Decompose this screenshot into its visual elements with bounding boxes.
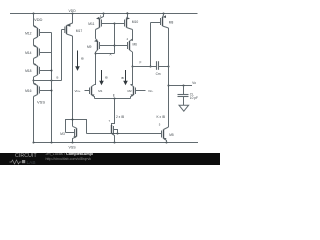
wire M10 drain to M6 source bbox=[132, 30, 134, 40]
svg-text:M10: M10 bbox=[132, 20, 139, 24]
svg-text:M17: M17 bbox=[76, 29, 83, 33]
wire bias gate rail x=51.5 bbox=[51, 33, 53, 143]
svg-text:F: F bbox=[140, 61, 142, 65]
svg-text:M18: M18 bbox=[25, 69, 32, 73]
transistor M3 NMOS mirror diode (gate left) bbox=[66, 126, 77, 142]
ground symbol below CL bbox=[179, 105, 189, 111]
wire M17 drain long vertical to M3 bbox=[72, 36, 74, 126]
transistor M9 PMOS cascode (gate right) bbox=[94, 39, 115, 53]
svg-text:K x IB: K x IB bbox=[157, 115, 166, 119]
annotation current arrow IB left branch bbox=[99, 70, 104, 85]
svg-text:VSS: VSS bbox=[37, 100, 45, 105]
svg-text:10 pF: 10 pF bbox=[190, 96, 198, 100]
wire M18 drain to node B bbox=[33, 77, 35, 81]
node VDD junction dot M11 source bbox=[103, 13, 105, 15]
node VDD junction dot M12 source bbox=[33, 13, 35, 15]
node dot CL tap bbox=[183, 85, 185, 87]
transistor M11 PMOS (gate right) bbox=[96, 14, 115, 30]
svg-text:E: E bbox=[113, 94, 115, 98]
svg-text:M16: M16 bbox=[25, 89, 32, 93]
node dot upper gate line bbox=[114, 23, 116, 25]
svg-text:M14: M14 bbox=[25, 51, 32, 55]
wire Vo output line bbox=[169, 85, 193, 87]
wire M8 drain vertical through Cm node to Vo and M5 drain bbox=[168, 28, 170, 127]
wire M16 drain down to VSS rail bbox=[33, 97, 35, 143]
node F junction dot bbox=[132, 66, 134, 68]
node E junction dot bbox=[114, 98, 116, 100]
transistor M14 PMOS diode (gate right) bbox=[34, 45, 52, 59]
svg-text:2 x IB: 2 x IB bbox=[116, 115, 124, 119]
wire cascode gate riser x=114.5 bbox=[114, 24, 116, 54]
wire M14 drain to M18 source bbox=[33, 59, 35, 64]
node dot lower gate line bbox=[114, 45, 116, 47]
svg-text:5: 5 bbox=[159, 123, 161, 127]
svg-text:Cm: Cm bbox=[156, 72, 161, 76]
node A junction dot bbox=[95, 53, 97, 55]
transistor M1 NMOS diff pair (gate left) bbox=[85, 85, 95, 99]
wire M17 gate riser down to node B bbox=[61, 30, 63, 81]
capacitor CL bbox=[178, 86, 189, 106]
transistor M4 NMOS tail source (gate right) bbox=[112, 125, 118, 143]
node bias rail dot M18 gate bbox=[51, 70, 53, 72]
node B junction dot bbox=[33, 80, 35, 82]
wire tail line diff pair sources bbox=[95, 98, 131, 100]
wire node A vertical to M1 drain bbox=[95, 52, 96, 85]
svg-text:7: 7 bbox=[109, 119, 111, 123]
svg-text:M12: M12 bbox=[25, 31, 32, 35]
footer text line 1 bbox=[46, 152, 93, 156]
node VSS rail dot M3 source bbox=[72, 142, 74, 144]
node VDD junction dot M10 source bbox=[127, 13, 129, 15]
svg-text:A: A bbox=[110, 52, 112, 56]
node B dot on bias gate rail bbox=[51, 80, 53, 82]
svg-text:M8: M8 bbox=[169, 20, 174, 24]
wire M8 gate riser to node F line bbox=[150, 23, 152, 67]
svg-text:VSS: VSS bbox=[69, 145, 77, 149]
wire node F line to Cm bbox=[133, 66, 157, 68]
svg-text:VDD: VDD bbox=[34, 17, 43, 22]
node VSS rail dot M5 source bbox=[166, 142, 168, 144]
node Vo junction dot bbox=[168, 85, 170, 87]
wire M11 drain to M9 source bbox=[95, 30, 97, 39]
svg-text:M2: M2 bbox=[128, 89, 132, 93]
wire node B to M16 source bbox=[33, 81, 35, 84]
svg-text:M5: M5 bbox=[169, 133, 174, 137]
transistor M5 NMOS output sink (gate left) bbox=[162, 127, 169, 143]
svg-text:Vo: Vo bbox=[192, 81, 196, 85]
transistor M12 PMOS diode (gate right) bbox=[34, 25, 52, 39]
annotation current arrow IB bias branch bbox=[75, 51, 80, 71]
node VSS rail dot M4 source bbox=[114, 142, 116, 144]
svg-text:VDD: VDD bbox=[69, 9, 77, 13]
node dot mirror bus M4 tap bbox=[117, 133, 119, 135]
wire left bias drain chain top segment bbox=[33, 14, 35, 27]
node dot M3 drain loop crossing bbox=[72, 119, 74, 121]
node VDD junction dot M17 source bbox=[72, 13, 74, 15]
transistor M2 NMOS diff pair (gate right) bbox=[130, 85, 145, 99]
transistor M17 PMOS (gate left) bbox=[62, 14, 73, 37]
svg-text:IB: IB bbox=[121, 76, 124, 80]
svg-text:4: 4 bbox=[127, 37, 129, 41]
svg-text:M9: M9 bbox=[87, 45, 92, 49]
wire M3 diode loop bbox=[66, 120, 87, 134]
transistor M10 PMOS (gate left) bbox=[115, 14, 133, 30]
transistor M8 PMOS second stage (gate left) bbox=[151, 14, 169, 29]
svg-text:M1: M1 bbox=[98, 89, 102, 93]
svg-text:Vin-: Vin- bbox=[148, 89, 153, 93]
node VSS rail dot x51.5 bbox=[51, 142, 53, 144]
node dot M8 gate at F line bbox=[150, 66, 152, 68]
svg-text:LAB: LAB bbox=[27, 160, 36, 165]
annotation current arrow IB right branch bbox=[123, 70, 128, 85]
wire node F vertical from M6 drain bbox=[132, 52, 134, 67]
node VDD junction dot M8 source bbox=[163, 13, 165, 15]
footer black bar bbox=[0, 153, 220, 166]
svg-text:M11: M11 bbox=[88, 22, 94, 26]
wire M12 drain to M14 source bbox=[33, 39, 35, 46]
node VSS rail dot x33.5 bbox=[33, 142, 35, 144]
wire mirror gate bus M3 to M5 bbox=[87, 133, 162, 135]
svg-text:IB: IB bbox=[105, 76, 108, 80]
wire node A horizontal to cascode gate riser bbox=[96, 53, 115, 55]
wire node F down to M2 drain bbox=[131, 67, 133, 85]
wire VSS bottom rail bbox=[34, 142, 199, 144]
footer text line 2 bbox=[46, 157, 92, 161]
svg-text:M3: M3 bbox=[60, 132, 65, 136]
svg-text:M6: M6 bbox=[133, 42, 138, 46]
node bias rail dot M16 gate bbox=[51, 90, 53, 92]
svg-text:B: B bbox=[57, 76, 59, 80]
svg-text:IB: IB bbox=[81, 57, 84, 61]
wire node B horizontal to M17 gate riser bbox=[34, 80, 62, 82]
transistor M6 PMOS cascode (gate left) bbox=[115, 39, 134, 52]
transistor M16 PMOS diode (gate right) bbox=[34, 83, 52, 97]
wire tail vertical to M4 drain bbox=[112, 99, 115, 126]
transistor M18 PMOS diode (gate right) bbox=[34, 63, 52, 77]
node dot Cm right lead on M8 drain wire bbox=[168, 66, 170, 68]
capacitor Cm bbox=[157, 61, 169, 70]
CircuitLab logo bbox=[9, 153, 39, 165]
svg-text:Vin+: Vin+ bbox=[75, 89, 81, 93]
wire VDD top rail bbox=[10, 13, 198, 15]
